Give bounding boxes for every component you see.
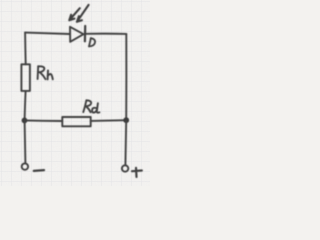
node junction right [123,117,129,123]
terminal minus circle [22,163,28,169]
wire top-right horizontal [86,33,126,35]
light arrow 1 [69,8,80,20]
label Rh [38,66,53,79]
wire left vertical middle [25,91,26,120]
terminal plus circle [122,165,128,171]
wire left vertical lower [24,121,27,163]
node junction left [22,118,28,124]
resistor Rd [62,117,90,126]
wire middle left segment [25,119,63,122]
wire left vertical upper [24,33,27,65]
wire right vertical lower [124,121,127,165]
wire right vertical upper [125,34,127,120]
label D [89,38,95,46]
photodiode D [70,27,84,42]
resistor Rh [21,64,30,91]
light arrow 2 [77,5,89,22]
wire top-left horizontal [25,33,70,34]
wire middle right segment [91,119,127,122]
label Rd [83,100,99,112]
diode cathode bar [84,26,86,41]
label plus [132,168,142,177]
label minus [34,169,44,172]
